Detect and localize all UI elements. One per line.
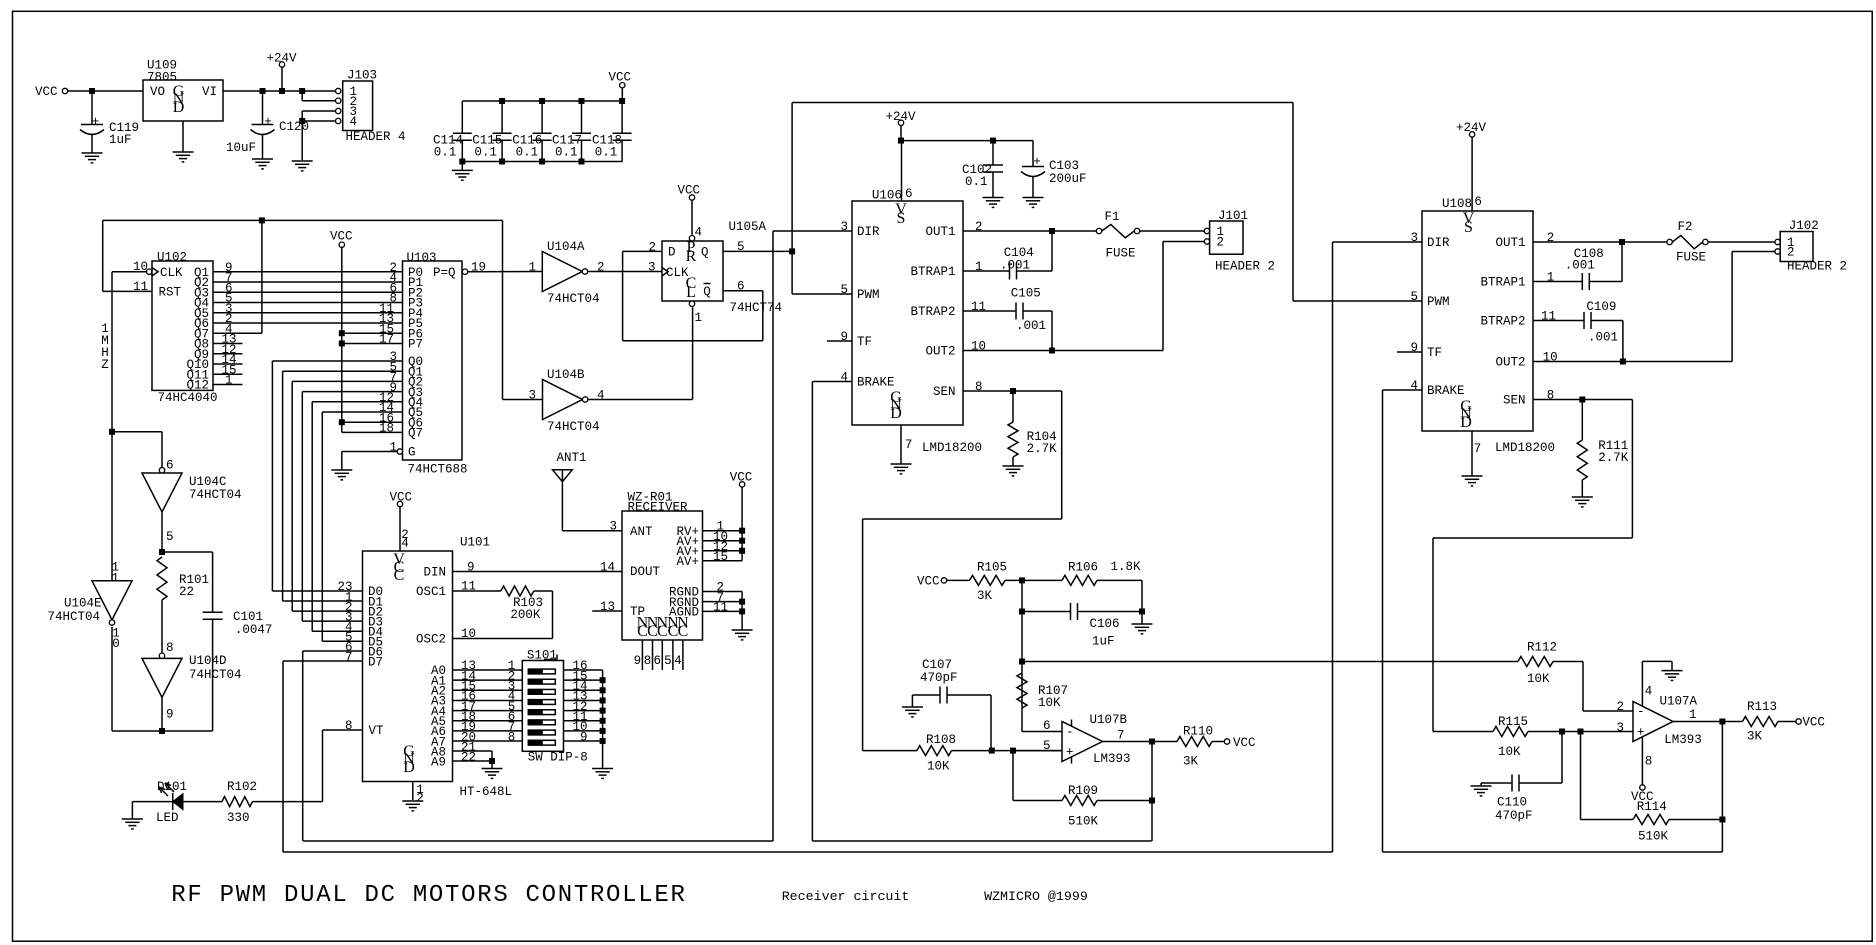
svg-text:VCC: VCC [1802, 716, 1825, 730]
svg-text:D101: D101 [157, 780, 187, 794]
svg-text:10K: 10K [1498, 745, 1521, 759]
svg-text:74HCT688: 74HCT688 [408, 463, 468, 477]
svg-text:74HCT04: 74HCT04 [547, 420, 600, 434]
svg-text:R113: R113 [1747, 700, 1777, 714]
svg-text:BRAKE: BRAKE [1427, 384, 1465, 398]
svg-text:1: 1 [112, 572, 120, 586]
svg-text:+: + [92, 115, 100, 129]
svg-text:AV+: AV+ [676, 555, 699, 569]
svg-text:9: 9 [166, 708, 174, 722]
svg-text:VT: VT [369, 724, 385, 738]
svg-text:R105: R105 [977, 561, 1007, 575]
svg-text:3: 3 [610, 520, 618, 534]
svg-text:6: 6 [1043, 719, 1051, 733]
svg-text:200uF: 200uF [1049, 172, 1087, 186]
svg-text:C103: C103 [1049, 159, 1079, 173]
svg-text:C: C [678, 623, 689, 640]
svg-text:RF PWM DUAL DC MOTORS CONTROLL: RF PWM DUAL DC MOTORS CONTROLLER [171, 882, 686, 909]
svg-text:8: 8 [975, 380, 983, 394]
svg-text:U104C: U104C [189, 475, 227, 489]
svg-text:SW DIP-8: SW DIP-8 [528, 751, 588, 765]
svg-text:Z: Z [101, 358, 109, 372]
svg-text:D: D [173, 99, 185, 116]
svg-text:9: 9 [467, 561, 475, 575]
svg-text:OSC2: OSC2 [416, 633, 446, 647]
svg-text:7: 7 [1117, 729, 1125, 743]
svg-text:1: 1 [975, 260, 983, 274]
svg-text:330: 330 [227, 811, 250, 825]
svg-text:+: + [1637, 726, 1645, 740]
svg-text:510K: 510K [1638, 830, 1669, 844]
svg-text:Receiver circuit: Receiver circuit [782, 889, 910, 904]
svg-text:L: L [686, 284, 696, 301]
svg-text:R115: R115 [1498, 715, 1528, 729]
svg-text:470pF: 470pF [1495, 809, 1533, 823]
svg-text:6: 6 [166, 459, 174, 473]
svg-text:5: 5 [664, 654, 672, 668]
svg-text:3: 3 [1616, 721, 1624, 735]
svg-text:S: S [1464, 219, 1473, 236]
svg-text:VO: VO [150, 85, 165, 99]
svg-text:6: 6 [737, 280, 745, 294]
svg-text:LM393: LM393 [1093, 752, 1131, 766]
svg-text:R102: R102 [227, 780, 257, 794]
svg-text:11: 11 [1541, 310, 1556, 324]
svg-text:U107B: U107B [1090, 713, 1128, 727]
svg-text:8: 8 [1547, 389, 1555, 403]
svg-text:J102: J102 [1789, 219, 1819, 233]
svg-text:10K: 10K [1527, 672, 1550, 686]
svg-text:R: R [686, 248, 697, 265]
svg-text:3K: 3K [1183, 755, 1199, 769]
svg-text:4: 4 [674, 654, 682, 668]
svg-text:OUT2: OUT2 [925, 345, 955, 359]
svg-text:LMD18200: LMD18200 [1495, 441, 1555, 455]
svg-text:1: 1 [1689, 708, 1697, 722]
svg-text:4: 4 [597, 389, 605, 403]
svg-text:HEADER 2: HEADER 2 [1215, 260, 1275, 274]
svg-text:CLK: CLK [160, 266, 183, 280]
svg-text:470pF: 470pF [920, 671, 958, 685]
svg-text:U105A: U105A [729, 220, 767, 234]
svg-text:+: + [264, 115, 272, 129]
svg-text:C101: C101 [233, 610, 263, 624]
svg-text:2.7K: 2.7K [1027, 442, 1058, 456]
svg-text:14: 14 [600, 561, 615, 575]
svg-text:-: - [1637, 705, 1645, 719]
svg-text:1: 1 [529, 261, 537, 275]
svg-text:TF: TF [1427, 346, 1442, 360]
svg-text:9: 9 [1411, 341, 1419, 355]
svg-text:9: 9 [841, 330, 849, 344]
svg-text:7: 7 [905, 438, 913, 452]
svg-text:VCC: VCC [678, 184, 701, 198]
svg-text:+: + [1033, 155, 1041, 169]
svg-text:74HCT74: 74HCT74 [730, 301, 783, 315]
svg-text:0.1: 0.1 [965, 175, 988, 189]
svg-text:SEN: SEN [933, 385, 956, 399]
svg-text:C107: C107 [922, 658, 952, 672]
svg-text:8: 8 [508, 730, 516, 744]
svg-text:2: 2 [1787, 246, 1795, 260]
svg-text:U104E: U104E [64, 597, 102, 611]
svg-text:17: 17 [379, 333, 394, 347]
svg-text:U107A: U107A [1660, 695, 1698, 709]
svg-text:VCC: VCC [609, 71, 632, 85]
svg-text:C: C [657, 623, 668, 640]
svg-text:510K: 510K [1068, 815, 1099, 829]
svg-text:J103: J103 [347, 69, 377, 83]
svg-text:BRAKE: BRAKE [857, 376, 895, 390]
svg-text:P=Q: P=Q [433, 266, 456, 280]
svg-text:VCC: VCC [1233, 736, 1256, 750]
svg-text:3: 3 [1411, 231, 1419, 245]
svg-text:RECEIVER: RECEIVER [628, 501, 689, 515]
svg-text:1: 1 [225, 374, 233, 388]
svg-text:18: 18 [379, 422, 394, 436]
svg-text:+: + [1066, 746, 1074, 760]
svg-text:5: 5 [166, 530, 174, 544]
svg-text:3K: 3K [977, 589, 993, 603]
svg-text:7: 7 [345, 651, 353, 665]
svg-text:.001: .001 [1000, 259, 1030, 273]
svg-text:0.1: 0.1 [474, 146, 497, 160]
svg-text:LED: LED [156, 811, 179, 825]
svg-text:.001: .001 [1565, 259, 1595, 273]
svg-text:10: 10 [133, 260, 148, 274]
svg-text:.001: .001 [1016, 319, 1046, 333]
svg-text:2: 2 [1616, 700, 1624, 714]
svg-text:3K: 3K [1747, 730, 1763, 744]
svg-text:ANT: ANT [630, 525, 653, 539]
svg-text:BTRAP2: BTRAP2 [910, 305, 955, 319]
svg-text:BTRAP2: BTRAP2 [1480, 315, 1525, 329]
svg-text:8: 8 [345, 719, 353, 733]
svg-text:VCC: VCC [35, 85, 58, 99]
svg-text:1: 1 [390, 441, 398, 455]
svg-text:7: 7 [1474, 442, 1482, 456]
svg-text:2: 2 [1547, 231, 1555, 245]
svg-text:1.8K: 1.8K [1111, 560, 1142, 574]
svg-text:10: 10 [971, 340, 986, 354]
svg-text:0.1: 0.1 [434, 146, 457, 160]
svg-text:FUSE: FUSE [1106, 247, 1136, 261]
svg-text:U104A: U104A [547, 240, 585, 254]
svg-text:6: 6 [1474, 195, 1482, 209]
svg-text:4: 4 [1411, 379, 1419, 393]
svg-text:HEADER 2: HEADER 2 [1787, 260, 1847, 274]
svg-text:8: 8 [166, 641, 174, 655]
svg-text:8: 8 [1645, 755, 1653, 769]
svg-text:8: 8 [644, 654, 652, 668]
svg-text:U108: U108 [1442, 197, 1472, 211]
svg-text:HT-648L: HT-648L [460, 785, 513, 799]
svg-text:19: 19 [471, 261, 486, 275]
svg-text:74HCT04: 74HCT04 [48, 610, 101, 624]
svg-text:WZMICRO @1999: WZMICRO @1999 [984, 889, 1088, 904]
svg-text:11: 11 [971, 300, 986, 314]
svg-text:F1: F1 [1105, 210, 1120, 224]
svg-text:1: 1 [695, 311, 703, 325]
svg-text:VCC: VCC [917, 575, 940, 589]
svg-text:2: 2 [975, 220, 983, 234]
svg-text:0.1: 0.1 [516, 146, 539, 160]
svg-text:J101: J101 [1218, 209, 1248, 223]
svg-text:Q7: Q7 [408, 427, 423, 441]
svg-text:TF: TF [857, 335, 872, 349]
svg-text:3: 3 [529, 389, 537, 403]
svg-text:BTRAP1: BTRAP1 [1480, 276, 1525, 290]
svg-text:DIR: DIR [857, 225, 880, 239]
svg-text:22: 22 [179, 585, 194, 599]
svg-text:F2: F2 [1678, 220, 1693, 234]
svg-text:Q: Q [703, 285, 711, 299]
svg-text:4: 4 [695, 226, 703, 240]
svg-text:C109: C109 [1586, 300, 1616, 314]
svg-text:C106: C106 [1090, 617, 1120, 631]
svg-text:74HCT04: 74HCT04 [189, 488, 242, 502]
svg-text:A9: A9 [431, 756, 446, 770]
svg-text:DIR: DIR [1427, 236, 1450, 250]
svg-text:BTRAP1: BTRAP1 [910, 265, 955, 279]
svg-text:74HC4040: 74HC4040 [158, 391, 218, 405]
svg-text:DOUT: DOUT [630, 565, 661, 579]
svg-text:10uF: 10uF [226, 141, 256, 155]
svg-text:1uF: 1uF [1092, 635, 1115, 649]
svg-text:LM393: LM393 [1664, 733, 1702, 747]
svg-text:U104B: U104B [547, 368, 585, 382]
svg-text:C105: C105 [1011, 287, 1041, 301]
svg-text:R106: R106 [1068, 561, 1098, 575]
svg-text:RST: RST [159, 286, 182, 300]
svg-text:11: 11 [713, 601, 728, 615]
svg-text:6: 6 [654, 654, 662, 668]
svg-text:6: 6 [905, 187, 913, 201]
svg-text:U102: U102 [157, 251, 187, 265]
svg-text:3: 3 [841, 220, 849, 234]
svg-text:U103: U103 [407, 251, 437, 265]
svg-text:R110: R110 [1183, 725, 1213, 739]
svg-text:22: 22 [461, 751, 476, 765]
svg-text:G: G [408, 446, 416, 460]
svg-text:PWM: PWM [1427, 295, 1450, 309]
svg-text:5: 5 [841, 283, 849, 297]
svg-text:FUSE: FUSE [1676, 251, 1706, 265]
svg-text:.0047: .0047 [235, 623, 273, 637]
svg-text:R114: R114 [1637, 800, 1667, 814]
svg-text:OUT1: OUT1 [1495, 236, 1525, 250]
svg-text:U104D: U104D [189, 654, 227, 668]
svg-text:9: 9 [634, 654, 642, 668]
svg-text:10K: 10K [1038, 696, 1061, 710]
svg-text:74HCT04: 74HCT04 [189, 668, 242, 682]
svg-text:PWM: PWM [857, 288, 880, 302]
svg-text:74HCT04: 74HCT04 [547, 292, 600, 306]
svg-text:.001: .001 [1588, 331, 1618, 345]
svg-text:4: 4 [841, 371, 849, 385]
svg-text:D: D [403, 759, 415, 776]
svg-text:HEADER 4: HEADER 4 [346, 130, 406, 144]
svg-text:5: 5 [1411, 290, 1419, 304]
svg-text:0.1: 0.1 [555, 146, 578, 160]
svg-text:C110: C110 [1497, 796, 1527, 810]
svg-text:0.1: 0.1 [595, 146, 618, 160]
svg-text:Q: Q [701, 246, 709, 260]
svg-text:13: 13 [600, 600, 615, 614]
svg-text:D: D [1460, 414, 1472, 431]
svg-text:OUT1: OUT1 [925, 225, 955, 239]
svg-text:P7: P7 [408, 338, 423, 352]
svg-text:4: 4 [350, 115, 358, 129]
svg-text:-: - [1066, 726, 1074, 740]
svg-text:1uF: 1uF [109, 133, 132, 147]
svg-text:S101: S101 [527, 649, 557, 663]
svg-text:15: 15 [713, 550, 728, 564]
svg-text:4: 4 [401, 537, 409, 551]
svg-text:2: 2 [649, 241, 657, 255]
svg-text:VI: VI [202, 85, 217, 99]
svg-text:LMD18200: LMD18200 [922, 441, 982, 455]
svg-text:Q12: Q12 [186, 379, 209, 393]
svg-text:10: 10 [1543, 351, 1558, 365]
svg-text:D7: D7 [368, 656, 383, 670]
svg-text:1: 1 [1547, 271, 1555, 285]
svg-text:4: 4 [1645, 685, 1653, 699]
svg-text:3: 3 [648, 261, 656, 275]
svg-text:200K: 200K [510, 608, 541, 622]
svg-text:DIN: DIN [423, 566, 446, 580]
svg-text:2: 2 [597, 261, 605, 275]
svg-text:2: 2 [1217, 236, 1225, 250]
svg-text:9: 9 [580, 730, 588, 744]
svg-text:ANT1: ANT1 [557, 451, 587, 465]
svg-text:R108: R108 [926, 733, 956, 747]
svg-text:OUT2: OUT2 [1495, 356, 1525, 370]
svg-text:SEN: SEN [1503, 394, 1526, 408]
svg-text:0: 0 [112, 637, 120, 651]
svg-text:S: S [897, 210, 906, 227]
svg-text:U101: U101 [460, 536, 490, 550]
svg-text:C: C [394, 567, 405, 584]
svg-text:2.7K: 2.7K [1598, 451, 1629, 465]
svg-text:D: D [668, 246, 676, 260]
svg-text:R112: R112 [1527, 641, 1557, 655]
svg-text:11: 11 [133, 280, 148, 294]
svg-text:D: D [890, 405, 902, 422]
svg-text:10K: 10K [927, 760, 950, 774]
svg-text:OSC1: OSC1 [416, 585, 446, 599]
svg-text:R109: R109 [1068, 784, 1098, 798]
